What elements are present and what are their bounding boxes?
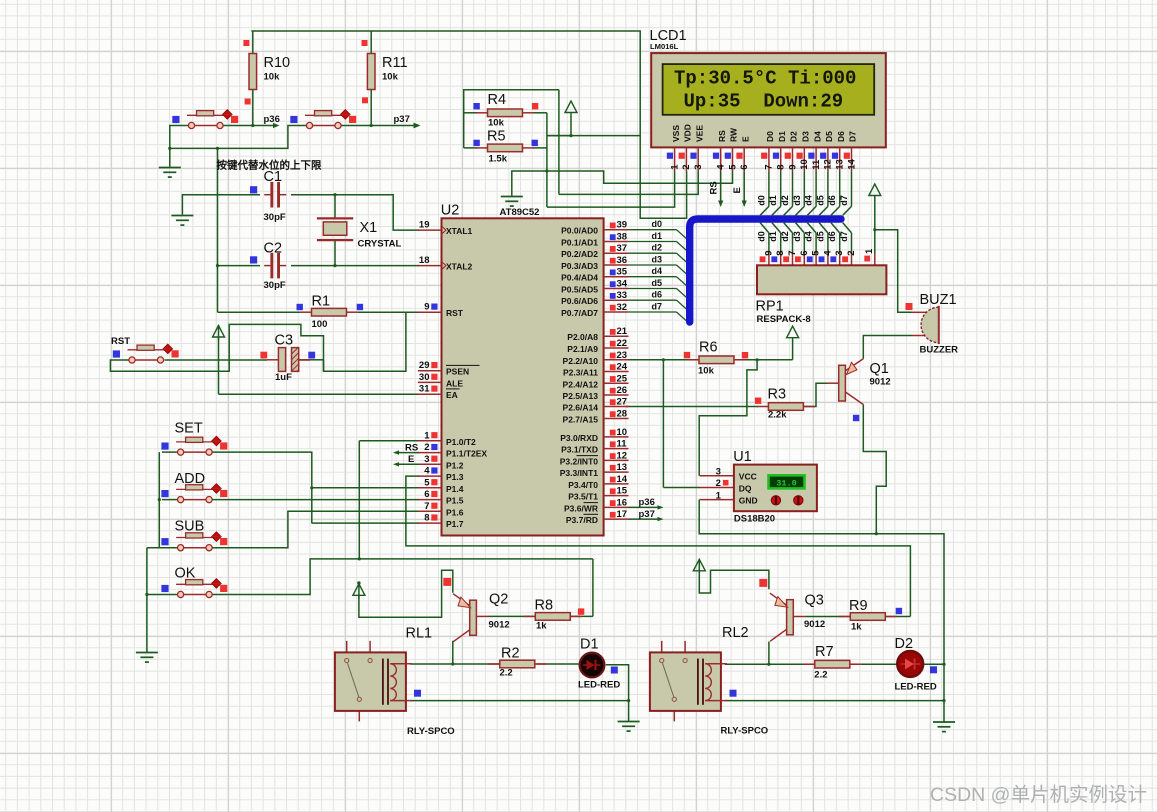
svg-text:P3.1/TXD: P3.1/TXD [561, 445, 598, 455]
svg-text:d4: d4 [652, 266, 663, 276]
U2 pin 33 P0.6/AD6 net d6 [561, 290, 688, 311]
relay RL2 RLY-SPCO [650, 625, 768, 737]
svg-text:Tp:30.5°C Ti:000: Tp:30.5°C Ti:000 [674, 67, 856, 89]
svg-text:Q3: Q3 [805, 593, 824, 609]
transistor Q3 (PNP 9012) [770, 593, 825, 642]
net label p36 with arrow [264, 114, 280, 128]
U2 pin 1 P1.0/T2 [418, 430, 476, 447]
U2 pin 10 P3.0/RXD [560, 427, 628, 443]
resistor R11 [367, 54, 407, 90]
svg-text:P0.5/AD5: P0.5/AD5 [561, 285, 598, 295]
svg-text:1uF: 1uF [275, 372, 292, 383]
svg-text:d7: d7 [839, 195, 849, 206]
U2 pin 30 ALE [418, 372, 463, 389]
LCD1 pin 1 VSS [669, 125, 680, 172]
svg-text:P3.7/RD: P3.7/RD [566, 515, 598, 525]
svg-text:8: 8 [776, 165, 787, 170]
svg-text:1: 1 [424, 430, 430, 441]
wire C1 net to XTAL1 [182, 195, 260, 215]
wire ground vertical to C2 and R1 [217, 148, 219, 312]
svg-text:d6: d6 [652, 290, 663, 300]
wire X1 top lead [334, 195, 336, 218]
wire Q3 emitter VCC jog [699, 560, 769, 594]
svg-text:33: 33 [617, 290, 628, 301]
svg-text:p37: p37 [639, 509, 655, 520]
wire Q3 base R9 row [793, 616, 806, 618]
svg-text:E: E [408, 454, 414, 465]
svg-text:d3: d3 [792, 231, 802, 242]
wire LCD D5 to bus [815, 172, 828, 216]
svg-text:d0: d0 [756, 195, 766, 206]
capacitor C3 (polarized 1uF) [267, 333, 310, 384]
svg-text:d5: d5 [652, 278, 663, 288]
wire bus to RP1 pin 9 net d0 [756, 223, 774, 266]
svg-text:PSEN: PSEN [446, 367, 469, 377]
svg-text:5: 5 [811, 250, 822, 256]
wire bus to RP1 pin 5 net d4 [804, 223, 822, 266]
wire Q2 emitter VCC jog [359, 570, 453, 617]
svg-text:d2: d2 [780, 195, 790, 206]
svg-text:31: 31 [419, 384, 430, 395]
svg-text:Q2: Q2 [489, 592, 508, 608]
svg-text:9: 9 [787, 165, 798, 170]
crystal X1 [317, 218, 402, 249]
resistor R4 [476, 92, 534, 129]
svg-text:d1: d1 [768, 195, 778, 206]
svg-text:D1: D1 [580, 637, 599, 653]
transistor Q2 (PNP 9012) [453, 592, 510, 642]
wire D1 to ground [606, 665, 629, 701]
svg-text:d1: d1 [768, 231, 778, 242]
svg-text:d5: d5 [815, 195, 825, 206]
svg-text:10k: 10k [488, 118, 505, 129]
svg-text:27: 27 [617, 397, 628, 408]
svg-text:ADD: ADD [175, 471, 206, 487]
wire R10 leads [252, 31, 254, 54]
wire OK button to P1.0 and R8 [212, 559, 593, 595]
svg-text:D1: D1 [777, 131, 787, 142]
svg-text:BUZZER: BUZZER [920, 345, 959, 356]
svg-text:17: 17 [617, 509, 628, 520]
U2 pin 34 P0.5/AD5 net d5 [561, 278, 688, 299]
ground near D1 [618, 722, 640, 732]
svg-text:P1.3: P1.3 [446, 472, 464, 482]
svg-text:d7: d7 [839, 231, 849, 242]
wire RST button to C3 [165, 359, 268, 361]
junction dots [451, 662, 454, 665]
svg-text:P2.1/A9: P2.1/A9 [567, 344, 598, 354]
ground under R4/R5 [501, 197, 523, 207]
U2 pin 7 P1.6 [418, 501, 464, 518]
power +5V arrow for Q2 emitter [353, 581, 365, 599]
svg-text:26: 26 [617, 385, 628, 396]
svg-text:3: 3 [693, 165, 704, 170]
wire RL1 coil to R2 to D1 row [410, 663, 500, 665]
svg-text:7: 7 [787, 251, 798, 256]
svg-text:10: 10 [617, 427, 628, 438]
svg-text:Q1: Q1 [870, 361, 889, 377]
wire X1 bottom lead [334, 241, 336, 266]
svg-text:12: 12 [823, 159, 834, 170]
svg-text:28: 28 [617, 409, 628, 420]
wire VEE vertical [558, 90, 560, 195]
svg-text:XTAL2: XTAL2 [446, 262, 473, 272]
svg-text:LED-RED: LED-RED [895, 682, 937, 693]
svg-text:d7: d7 [652, 302, 663, 312]
wire U1 GND to ground rail [699, 500, 944, 722]
svg-text:C3: C3 [275, 333, 294, 349]
wire RST net R1 row [218, 311, 301, 313]
svg-text:30pF: 30pF [264, 280, 286, 291]
svg-text:P3.0/RXD: P3.0/RXD [560, 433, 598, 443]
svg-text:4: 4 [716, 164, 727, 170]
svg-text:RST: RST [446, 308, 464, 318]
squares near R11 [362, 40, 368, 46]
net terminal E arrow at P1.2 [393, 454, 419, 467]
power +5V arrow for R6 pullup [787, 326, 799, 341]
svg-text:RESPACK-8: RESPACK-8 [757, 314, 811, 325]
resistor R9 [839, 598, 897, 633]
data bus (blue) [690, 219, 841, 322]
U2 pin 17 P3.7/RD [566, 509, 629, 525]
svg-text:R6: R6 [699, 340, 718, 356]
svg-text:AT89C52: AT89C52 [500, 207, 540, 218]
svg-text:30pF: 30pF [264, 212, 286, 223]
svg-text:E: E [732, 187, 743, 193]
svg-text:24: 24 [617, 362, 628, 373]
RP1 pin 1 [864, 248, 875, 265]
svg-text:2.2k: 2.2k [768, 410, 787, 421]
svg-text:P0.4/AD4: P0.4/AD4 [561, 273, 598, 283]
svg-text:DQ: DQ [739, 484, 752, 494]
svg-text:1.5k: 1.5k [489, 154, 508, 165]
svg-text:P1.5: P1.5 [446, 496, 464, 506]
blue square near RL1 coil [414, 690, 421, 697]
svg-text:p37: p37 [394, 114, 410, 125]
blue square near C1 [250, 186, 257, 193]
resistor R10 [249, 54, 290, 90]
svg-text:R5: R5 [487, 129, 506, 145]
svg-text:d6: d6 [827, 231, 837, 242]
LCD LCD1 LM016L [650, 28, 886, 147]
svg-text:RL1: RL1 [406, 626, 433, 642]
U2 pin 38 P0.1/AD1 net d1 [561, 231, 688, 252]
wire Q3 collector drop [768, 642, 770, 665]
wire LCD D4 to bus [804, 172, 817, 216]
svg-text:P2.3/A11: P2.3/A11 [563, 368, 598, 378]
svg-text:P3.5/T1: P3.5/T1 [568, 492, 598, 502]
ground near D2 [933, 722, 955, 732]
squares near R5 [473, 140, 479, 146]
wire LCD D7 to bus [839, 172, 852, 216]
svg-text:18: 18 [419, 255, 430, 266]
squares near C3 [260, 352, 267, 359]
svg-text:d0: d0 [756, 231, 766, 242]
squares near R4 [473, 103, 479, 109]
resistor pack RP1 RESPACK-8 [756, 265, 887, 325]
svg-text:3: 3 [834, 251, 845, 256]
svg-text:ALE: ALE [446, 378, 463, 388]
U2 pin 21 P2.0/A8 [567, 326, 628, 342]
wire button p36 row to ground [170, 126, 307, 149]
svg-text:9: 9 [424, 302, 429, 313]
svg-text:P2.5/A13: P2.5/A13 [563, 391, 599, 401]
wire SET button to P1.4 and P1.7 [212, 452, 312, 523]
svg-text:1: 1 [716, 490, 722, 501]
svg-text:C2: C2 [264, 241, 283, 257]
svg-text:D2: D2 [895, 636, 914, 652]
net label p36 arrow at P3.6 [629, 497, 664, 510]
svg-text:37: 37 [617, 243, 628, 254]
power +5V arrow for LCD VDD [565, 101, 577, 116]
svg-text:10: 10 [799, 159, 810, 170]
U2 pin 14 P3.4/T0 [568, 474, 628, 490]
svg-text:13: 13 [617, 462, 628, 473]
temperature sensor U1 DS18B20 [699, 449, 817, 525]
push button SUB [175, 519, 222, 551]
svg-text:3: 3 [716, 466, 721, 477]
svg-text:39: 39 [617, 220, 628, 231]
U2 pin 19 XTAL1 [418, 220, 473, 237]
U2 pin 5 P1.4 [418, 477, 464, 494]
resistor R7 [803, 644, 861, 681]
svg-text:R11: R11 [382, 55, 408, 71]
LCD1 pin 11 D4 [811, 131, 822, 172]
svg-text:LM016L: LM016L [650, 42, 679, 51]
svg-text:RW: RW [729, 127, 739, 142]
svg-text:P3.6/WR: P3.6/WR [564, 503, 598, 513]
svg-text:14: 14 [846, 159, 857, 170]
U2 pin 29 PSEN [418, 360, 480, 377]
svg-text:P2.4/A12: P2.4/A12 [563, 379, 599, 389]
LED D2 (LED-RED, on) [895, 636, 937, 693]
svg-text:7: 7 [764, 165, 775, 170]
svg-text:14: 14 [617, 474, 628, 485]
wire P2.6 to R3 [626, 406, 759, 408]
svg-text:RS: RS [709, 181, 720, 194]
svg-text:VCC: VCC [739, 472, 757, 482]
U2 pin 24 P2.3/A11 [563, 362, 628, 378]
svg-text:P0.0/AD0: P0.0/AD0 [561, 226, 598, 236]
wire LCD E drop with arrow [732, 172, 747, 208]
wire RP1 pin1 VCC branch to buzzer [874, 196, 876, 254]
svg-text:d3: d3 [792, 195, 802, 206]
svg-text:22: 22 [617, 338, 628, 349]
wire Q1 collector to ground rail [863, 405, 886, 534]
wire SUB button to P1.6 [212, 511, 419, 547]
push button ADD [175, 471, 222, 503]
resistor R1 [300, 294, 358, 331]
svg-text:U2: U2 [441, 203, 460, 219]
svg-text:p36: p36 [639, 497, 655, 508]
svg-text:D6: D6 [836, 131, 846, 142]
svg-text:GND: GND [739, 495, 758, 505]
blue square near C2 [250, 256, 257, 263]
capacitor C2 [264, 241, 287, 292]
power +5V arrow for RP1 [869, 184, 881, 199]
svg-text:RL2: RL2 [722, 625, 749, 641]
U2 pin 35 P0.4/AD4 net d4 [561, 266, 688, 287]
svg-text:P1.1/T2EX: P1.1/T2EX [446, 449, 487, 459]
red square near R8 [578, 608, 584, 614]
LCD1 pin 13 D6 [835, 131, 846, 172]
svg-text:8: 8 [775, 251, 786, 256]
svg-text:P1.4: P1.4 [446, 484, 464, 494]
svg-text:13: 13 [835, 159, 846, 170]
U2 pin 13 P3.3/INT1 [560, 462, 629, 478]
blue square near R9 [896, 608, 902, 614]
svg-text:X1: X1 [360, 220, 378, 236]
U2 pin 32 P0.7/AD7 net d7 [561, 302, 688, 323]
svg-text:1k: 1k [851, 622, 862, 633]
wire bus to RP1 pin 4 net d5 [815, 223, 833, 266]
svg-text:P2.2/A10: P2.2/A10 [563, 356, 599, 366]
U2 pin 18 XTAL2 [418, 255, 473, 272]
U2 pin 12 P3.2/INT0 [560, 450, 629, 466]
wire C2 net to XTAL2 [218, 265, 261, 267]
wire RL1 coil bottom to ground [410, 700, 629, 702]
svg-text:9012: 9012 [489, 620, 510, 631]
U2 pin 26 P2.5/A13 [563, 385, 629, 401]
svg-text:SET: SET [175, 421, 203, 437]
wire LCD D3 to bus [792, 172, 805, 216]
svg-text:DS18B20: DS18B20 [734, 514, 775, 525]
svg-text:SUB: SUB [175, 519, 205, 535]
svg-text:RLY-SPCO: RLY-SPCO [721, 726, 769, 737]
svg-text:2: 2 [424, 442, 429, 453]
wire DQ net [662, 360, 664, 488]
svg-text:d1: d1 [652, 231, 663, 241]
wire button p36 to R10 and net arrow [223, 125, 277, 127]
svg-text:D7: D7 [848, 131, 858, 142]
svg-text:10k: 10k [698, 366, 715, 377]
svg-text:5: 5 [424, 477, 430, 488]
svg-text:9012: 9012 [870, 377, 891, 388]
LED D1 (LED-RED, off) [578, 637, 620, 691]
svg-text:RST: RST [111, 336, 130, 347]
U2 pin 37 P0.2/AD2 net d2 [561, 243, 688, 264]
LCD1 pin 3 VEE [693, 125, 704, 172]
wire button p37 to R11 and net arrow [341, 125, 419, 127]
buzzer BUZ1 [912, 292, 958, 356]
resistor R2 [488, 646, 546, 679]
svg-text:XTAL1: XTAL1 [446, 226, 473, 236]
svg-text:d4: d4 [804, 195, 814, 206]
U2 pin 39 P0.0/AD0 net d0 [561, 219, 688, 240]
U2 pin 3 P1.2 [418, 454, 464, 471]
svg-text:U1: U1 [733, 449, 752, 465]
U2 pin 16 P3.6/WR [564, 497, 629, 513]
LCD1 pin 5 RW [727, 127, 738, 171]
svg-text:2: 2 [681, 165, 692, 170]
wire R6 right to VCC arrow [733, 359, 792, 361]
U2 pin 6 P1.5 [418, 489, 464, 506]
svg-text:11: 11 [617, 439, 628, 450]
wire VCC feed to LCD VDD rail [547, 116, 571, 136]
svg-text:BUZ1: BUZ1 [920, 292, 957, 308]
svg-text:d0: d0 [652, 219, 663, 229]
svg-text:1k: 1k [536, 621, 547, 632]
LCD1 pin 8 D1 [776, 131, 787, 172]
svg-text:P0.3/AD3: P0.3/AD3 [561, 261, 598, 271]
U2 pin 9 RST [418, 302, 464, 319]
net label p37 with arrow [394, 114, 421, 128]
svg-text:R2: R2 [501, 646, 520, 662]
svg-text:4: 4 [424, 466, 430, 477]
blue square near RL2 coil [730, 690, 737, 697]
svg-text:按键代替水位的上下限: 按键代替水位的上下限 [217, 159, 322, 172]
resistor R3 [757, 387, 815, 421]
wire bus to RP1 pin 2 net d7 [839, 223, 857, 266]
svg-text:5: 5 [727, 164, 738, 170]
svg-text:6: 6 [799, 251, 810, 256]
wire P2.2 to R6 and DQ [626, 359, 699, 361]
svg-text:P3.3/INT1: P3.3/INT1 [560, 468, 599, 478]
wire buttons ground chain [158, 452, 160, 548]
svg-text:8: 8 [424, 513, 429, 524]
svg-text:6: 6 [424, 489, 429, 500]
svg-text:D2: D2 [789, 131, 799, 142]
wire LCD D1 to bus [768, 172, 781, 216]
U2 pin 4 P1.3 [418, 466, 464, 483]
svg-text:R8: R8 [535, 598, 554, 614]
wire R8 right riser [592, 559, 594, 617]
svg-text:P2.7/A15: P2.7/A15 [563, 415, 599, 425]
wire P1.0 drop [359, 440, 419, 442]
MCU U2 AT89C52 [441, 203, 604, 536]
wire R3 to Q1 base [805, 383, 828, 406]
svg-text:4: 4 [822, 250, 833, 256]
relay RL1 RLY-SPCO [335, 626, 455, 738]
svg-text:RS: RS [405, 443, 418, 454]
svg-text:38: 38 [617, 232, 628, 243]
ground near p36/p37 buttons [159, 168, 181, 178]
svg-text:R9: R9 [849, 598, 868, 614]
svg-text:EA: EA [446, 390, 458, 400]
svg-text:P1.6: P1.6 [446, 507, 464, 517]
wire VCC top rail from R10/R11 to LCD VDD riser [251, 31, 686, 218]
ground near C1 [171, 216, 193, 226]
U2 pin 25 P2.4/A12 [563, 373, 629, 389]
wire RST net snake to C3 and button [110, 312, 406, 371]
svg-text:3: 3 [424, 454, 429, 465]
wire bus to RP1 pin 6 net d3 [792, 223, 810, 266]
wire LCD D2 to bus [780, 172, 793, 216]
squares near R10 [243, 40, 249, 46]
LCD1 pin 10 D3 [799, 131, 810, 172]
LCD1 pin 4 RS [716, 130, 727, 172]
wire bus to RP1 pin 3 net d6 [827, 223, 845, 266]
U2 pin 23 P2.2/A10 [563, 350, 629, 366]
svg-text:P1.7: P1.7 [446, 519, 464, 529]
LCD1 pin 9 D2 [787, 131, 798, 172]
svg-text:2: 2 [716, 478, 721, 489]
wire RL2 coil to R7 to D2 row [725, 663, 769, 665]
LCD1 pin 7 D0 [764, 131, 775, 172]
U2 pin 8 P1.7 [418, 513, 464, 530]
svg-text:7: 7 [424, 501, 429, 512]
svg-text:2.2: 2.2 [814, 670, 827, 681]
wire VCC arrow to EA pin31 [218, 325, 220, 394]
svg-text:32: 32 [617, 302, 628, 313]
svg-text:P3.4/T0: P3.4/T0 [568, 480, 598, 490]
wire Q1 emitter riser to buzzer [863, 336, 912, 359]
red square near R3 [755, 398, 761, 404]
svg-text:d2: d2 [652, 243, 663, 253]
wire R4/R5 left rail [464, 90, 559, 148]
svg-text:6: 6 [739, 165, 750, 170]
wire LCD D6 to bus [827, 172, 840, 216]
